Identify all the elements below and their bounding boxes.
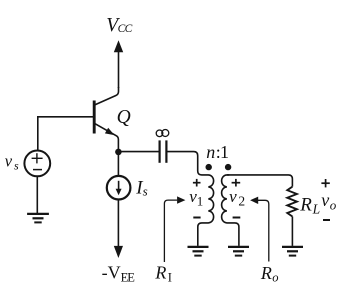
transformer dot primary (206, 164, 212, 170)
wire collector (95, 87, 119, 105)
label + (v1) (193, 179, 201, 187)
transformer secondary winding (222, 175, 239, 246)
node E dot (115, 149, 122, 156)
label - (v2) (233, 217, 241, 219)
measurement arrow Ro (250, 197, 269, 262)
label + (v2) (232, 179, 241, 187)
ground (vs) (27, 214, 49, 223)
ground (RL) (282, 247, 303, 256)
current source Is (107, 176, 131, 200)
source vs (24, 151, 50, 177)
wire node-capacitor (118, 151, 158, 153)
label - (v1) (193, 217, 200, 219)
svg-text:vo: vo (321, 190, 337, 213)
measurement arrow RI (164, 196, 185, 262)
label + (vo) (321, 179, 329, 187)
svg-text:VCC: VCC (106, 15, 132, 36)
svg-text:Is: Is (135, 178, 147, 199)
transformer primary winding (198, 175, 214, 246)
svg-text:v1: v1 (189, 187, 203, 209)
wire vs-ground (36, 176, 38, 213)
svg-text:-VEE: -VEE (102, 262, 136, 284)
transformer dot secondary (225, 164, 231, 170)
wire base (38, 117, 94, 151)
ground (primary) (188, 247, 209, 256)
power -VEE arrow (114, 200, 123, 258)
power VCC arrow (114, 40, 123, 88)
svg-text:n:1: n:1 (206, 142, 229, 162)
wire RL-ground (291, 217, 293, 246)
svg-text:RL: RL (299, 195, 320, 217)
svg-text:vs: vs (5, 151, 19, 172)
svg-text:RI: RI (154, 263, 172, 285)
resistor RL (287, 187, 297, 217)
label infinity (156, 130, 169, 137)
svg-text:v2: v2 (229, 187, 245, 209)
wire secondary-RL (227, 175, 292, 187)
wire capacitor-transformer (167, 152, 206, 175)
transistor Q (94, 101, 118, 150)
svg-text:Q: Q (117, 107, 131, 128)
label - (vo) (323, 219, 330, 221)
ground (secondary) (228, 247, 249, 256)
svg-text:Ro: Ro (260, 263, 279, 284)
wire node-Is (117, 152, 119, 177)
capacitor C (infinite) (160, 140, 167, 162)
